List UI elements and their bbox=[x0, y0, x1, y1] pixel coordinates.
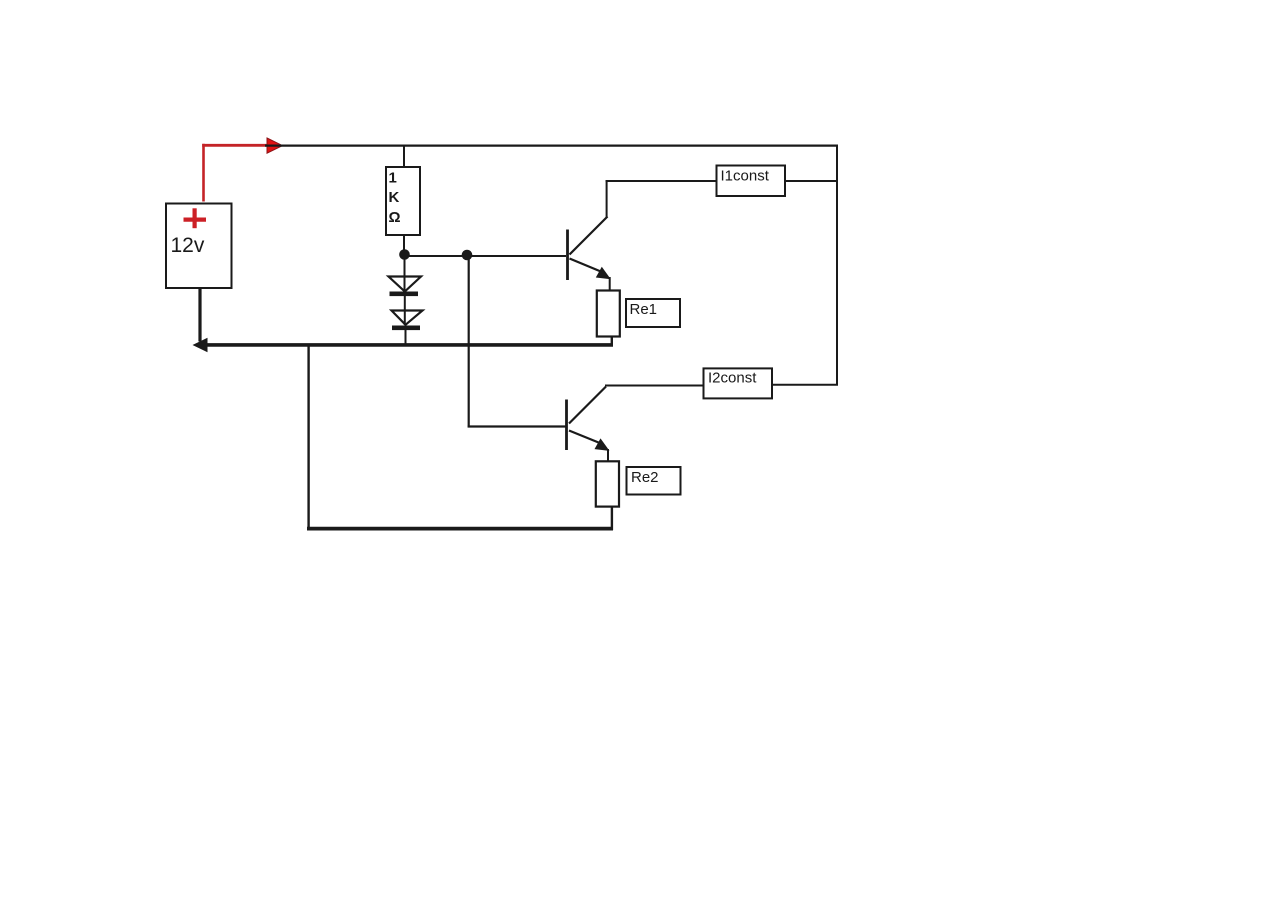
Re2 label box bbox=[627, 467, 681, 495]
svg-text:Ω: Ω bbox=[389, 209, 401, 226]
Q2 emitter wire to Re2 bbox=[607, 449, 609, 462]
wire right rail to I2const bbox=[772, 384, 838, 386]
resistor R1 box bbox=[386, 167, 420, 235]
wire R1 to node A bbox=[403, 235, 405, 252]
wire I1const to right rail bbox=[785, 180, 838, 182]
svg-text:I2const: I2const bbox=[708, 370, 757, 387]
wire red positive (vertical from battery) bbox=[202, 144, 205, 202]
wire D1 to D2 bbox=[404, 296, 406, 325]
resistor Re2 box bbox=[596, 461, 619, 506]
right rail wire (vertical) bbox=[836, 145, 838, 386]
wire top rail to R1 bbox=[403, 146, 405, 168]
wire Re1 to ground rail bbox=[611, 337, 613, 347]
node B junction dot bbox=[462, 250, 473, 261]
diode D2 triangle bbox=[392, 311, 423, 325]
transistor Q1 emitter diagonal bbox=[570, 259, 603, 273]
svg-text:1: 1 bbox=[389, 170, 397, 187]
diode D1 cathode bar bbox=[390, 292, 419, 297]
diode D2 cathode bar bbox=[392, 326, 420, 331]
left vertical wire between rails bbox=[307, 346, 309, 530]
red current arrowhead bbox=[267, 138, 283, 153]
transistor Q2 collector diagonal bbox=[569, 387, 606, 424]
diode D1 anode wire bbox=[404, 257, 406, 291]
wire node B down bbox=[468, 255, 470, 428]
wire to Q2 base bbox=[468, 425, 566, 427]
wire node A to Q1 base bbox=[405, 255, 567, 257]
I2const box bbox=[704, 368, 773, 398]
top supply rail wire bbox=[265, 144, 838, 146]
resistor Re1 box bbox=[597, 291, 620, 337]
svg-text:Re2: Re2 bbox=[631, 469, 659, 486]
node A junction dot bbox=[399, 249, 410, 260]
transistor Q1 collector diagonal bbox=[570, 217, 608, 255]
Re1 label box bbox=[626, 299, 680, 327]
wire Re2 to bottom rail bbox=[611, 507, 613, 531]
transistor Q1 base bar bbox=[566, 230, 569, 281]
Q1 emitter arrowhead bbox=[596, 267, 611, 280]
transistor Q2 base bar bbox=[565, 400, 568, 451]
Q2 emitter arrowhead bbox=[595, 438, 610, 451]
battery V1 box bbox=[166, 204, 232, 289]
wire red positive (horizontal to arrow) bbox=[202, 144, 268, 147]
transistor Q2 emitter diagonal bbox=[569, 431, 601, 444]
svg-text:I1const: I1const bbox=[721, 168, 770, 185]
Q1 emitter wire to Re1 bbox=[609, 277, 611, 291]
ground rail wire bbox=[206, 343, 613, 347]
bottom return rail wire bbox=[307, 527, 613, 531]
battery negative wire bbox=[198, 287, 201, 342]
wire D2 to ground rail bbox=[405, 330, 407, 346]
Q1 collector vertical wire bbox=[606, 180, 608, 218]
Q1 collector wire to I1const bbox=[606, 180, 717, 182]
ground rail arrowhead bbox=[193, 338, 208, 352]
battery plus terminal bbox=[184, 218, 207, 222]
diode D1 triangle bbox=[389, 277, 422, 292]
svg-text:Re1: Re1 bbox=[630, 301, 658, 318]
wire I2const to Q2 collector bbox=[605, 385, 704, 387]
svg-text:K: K bbox=[389, 189, 400, 206]
I1const box bbox=[717, 166, 786, 197]
svg-text:12v: 12v bbox=[171, 234, 205, 257]
